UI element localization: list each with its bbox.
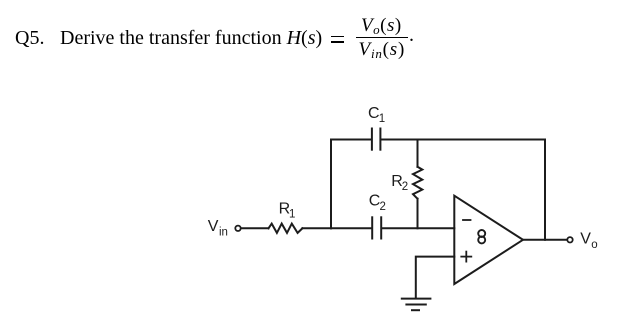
header question text (15, 28, 44, 48)
wire op-amp output (523, 239, 567, 241)
svg-text:1: 1 (289, 209, 295, 221)
wire top left to C1 (331, 139, 371, 141)
label Vo (580, 231, 597, 252)
svg-text:V: V (580, 231, 591, 248)
equals sign (331, 36, 344, 38)
op-amp U1 (454, 196, 523, 284)
label R2 (391, 173, 408, 193)
svg-text:V: V (208, 218, 219, 235)
resistor R1 (269, 224, 303, 233)
capacitor C1 (372, 129, 381, 150)
svg-text:1: 1 (379, 113, 385, 125)
wire Vin to R1 (241, 227, 269, 229)
label Vin (208, 218, 228, 239)
wire R2 to middle node B (417, 199, 419, 229)
node A vertical branch up (330, 140, 332, 229)
wire top junction down to R2 (417, 140, 419, 167)
label C2 (369, 193, 386, 214)
svg-text:2: 2 (380, 201, 386, 213)
output terminal node Vo (567, 237, 572, 242)
feedback wire up from output node (544, 140, 546, 240)
label C1 (368, 105, 385, 125)
wire noninverting input (416, 257, 455, 298)
svg-text:in: in (219, 227, 228, 239)
label R1 (279, 201, 296, 221)
svg-text:o: o (591, 239, 597, 251)
resistor R2 (413, 167, 422, 199)
input terminal node Vin (235, 226, 240, 231)
op-amp minus sign (463, 219, 471, 221)
ground (402, 299, 431, 311)
svg-text:2: 2 (402, 181, 408, 193)
wire C1 to feedback corner (381, 139, 545, 141)
capacitor C2 (372, 217, 381, 238)
op-amp plus sign (461, 252, 471, 262)
op-amp infinity gain symbol (478, 230, 485, 243)
wire node A to C2 (331, 227, 371, 229)
fraction Vo(s)/Vin(s) (356, 16, 408, 59)
wire R1 to node A (302, 227, 331, 229)
wire C2 to op-amp inverting input (382, 227, 454, 229)
